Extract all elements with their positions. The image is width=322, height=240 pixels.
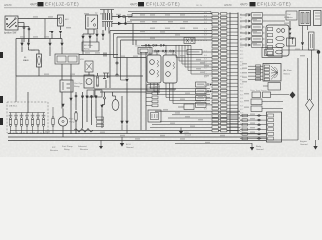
svg-text:EFI(1JZ-GTE): EFI(1JZ-GTE): [45, 2, 79, 7]
wire coil drop 2: [108, 27, 110, 34]
relay coil windings: [102, 13, 113, 27]
svg-text:E15: E15: [240, 65, 243, 67]
wire FL down: [38, 67, 40, 76]
wire x105 low: [101, 108, 103, 128]
svg-text:Fuel: Fuel: [69, 119, 74, 121]
connector diamond wts: [290, 92, 296, 99]
bus wire row2: [16, 38, 62, 40]
wire fuse jog: [49, 31, 52, 33]
svg-text:EFI(1JZ-GTE): EFI(1JZ-GTE): [257, 2, 291, 7]
svg-text:E8: E8: [240, 40, 242, 42]
connector arrow B4: [101, 34, 104, 38]
wire long mid row 121: [160, 121, 240, 123]
wire x122 tail: [121, 124, 123, 130]
wire JB feed top: [15, 76, 17, 102]
connector pair below fuse: [51, 31, 63, 34]
wire bus row 40: [121, 39, 213, 41]
fuse F-pump outside: [52, 107, 54, 134]
wire relay bus: [83, 33, 94, 35]
wire cap feed: [79, 54, 118, 56]
injector connector pairs: [240, 14, 251, 47]
svg-text:E23: E23: [240, 94, 243, 96]
fuse JB2: [15, 113, 17, 134]
svg-text:Relay: Relay: [74, 86, 80, 88]
bottom label 2: [62, 146, 73, 151]
wire x76: [75, 92, 77, 110]
svg-text:Resistor: Resistor: [80, 148, 88, 151]
connector arrow x105: [100, 105, 103, 109]
connector pair ck3: [170, 50, 176, 52]
wire wts out: [271, 94, 290, 96]
svg-text:E13: E13: [240, 58, 243, 60]
header title block 3: [240, 2, 291, 7]
wire B4 stub: [102, 30, 104, 34]
knock sensor 2: [196, 89, 213, 94]
svg-text:E26: E26: [240, 105, 243, 107]
circuit opening relay label: [74, 82, 83, 88]
wire top right run: [282, 49, 319, 51]
svg-text:4A70: 4A70: [240, 3, 248, 7]
wire x71: [70, 90, 72, 134]
wire x122: [121, 96, 123, 121]
sensor box top right: [262, 48, 282, 58]
wire ecu low feeds: [240, 114, 267, 140]
wire x127b: [126, 82, 128, 96]
igniter sub box: [287, 38, 296, 46]
wire bottom bus 0: [10, 129, 240, 131]
svg-text:ND IN: ND IN: [196, 5, 202, 7]
fuse JB1: [9, 113, 11, 134]
svg-text:E7: E7: [240, 36, 242, 38]
wire to O2: [105, 80, 107, 88]
wire right vert 2: [307, 58, 309, 100]
wire ladder rows upper: [176, 58, 212, 75]
svg-text:F/P: F/P: [52, 147, 56, 149]
sensor box r2: [251, 99, 283, 105]
svg-text:4A70: 4A70: [130, 3, 138, 7]
connector arrow x127: [125, 121, 128, 125]
wire corner fan: [151, 83, 211, 104]
check connector X box: [184, 38, 195, 44]
svg-text:E11: E11: [240, 51, 243, 53]
svg-text:E12: E12: [240, 54, 243, 56]
ignition switch SW1: [5, 16, 18, 30]
wire right edge drop: [318, 50, 320, 140]
svg-text:EFI(1JZ-GTE): EFI(1JZ-GTE): [146, 2, 180, 7]
wire x120 low: [121, 79, 128, 81]
svg-text:ECU: ECU: [126, 144, 131, 146]
binder mark 2: [0, 96, 3, 103]
wire ecu bottom: [267, 139, 299, 141]
wire color smudges: [20, 13, 305, 143]
big connector diamond right: [306, 99, 314, 140]
ECU pin labels: [240, 14, 243, 133]
wire bottom bus 4: [175, 143, 252, 145]
svg-text:Ground: Ground: [185, 135, 192, 137]
wire sens drop2: [86, 99, 88, 122]
svg-text:Ign: Ign: [95, 13, 98, 15]
diode D1: [118, 15, 122, 19]
svg-text:JZA70: JZA70: [4, 3, 12, 7]
node x105: [104, 97, 106, 99]
diode D2: [118, 22, 122, 26]
wire sens drops: [86, 95, 88, 97]
diode D1 circle: [123, 15, 126, 18]
connector pair m2: [153, 44, 159, 46]
connector arrow x122: [120, 121, 123, 125]
fusible link FL1: [37, 54, 42, 67]
svg-text:Fuel Pump: Fuel Pump: [62, 146, 73, 148]
svg-text:E4: E4: [240, 25, 242, 27]
ground G4 engine: [300, 140, 318, 150]
wire left drop: [15, 39, 17, 57]
mini stack boxes: [97, 117, 104, 127]
fuse JB5 label: [31, 115, 35, 117]
svg-text:E2: E2: [240, 18, 242, 20]
fuel pump FP: [58, 117, 67, 126]
svg-text:Ground: Ground: [126, 146, 134, 149]
check connector box: [138, 48, 152, 55]
wire fuse htr stub: [97, 73, 99, 76]
wire corner drop x110: [109, 31, 111, 55]
wire x-box dashes: [195, 40, 207, 42]
wire JB feed: [27, 92, 29, 113]
wire coil drop 1: [105, 27, 107, 31]
wire fuse down: [60, 26, 62, 30]
wire AM1 drop: [44, 19, 46, 39]
junction box 2 connectors: [55, 54, 79, 64]
header rule: [4, 7, 322, 9]
wire diode row2: [112, 23, 132, 25]
wire AM2: [18, 22, 24, 24]
svg-text:Ignition SW: Ignition SW: [4, 32, 17, 35]
svg-text:E3: E3: [240, 21, 242, 23]
fuse JB7 label: [42, 115, 46, 117]
wire bottom bus 3: [8, 140, 266, 142]
wire corner drops right: [176, 45, 191, 74]
wire corner drop x120: [120, 40, 122, 80]
wire row 20: [130, 19, 212, 21]
wire diode row1: [112, 16, 132, 18]
connector arrow FP: [61, 104, 64, 108]
wire relay pins: [87, 29, 89, 34]
ECU lower connector block: [267, 112, 282, 142]
check connector 2 box: [147, 85, 159, 92]
svg-text:E5: E5: [240, 29, 242, 31]
EFI main relay coil: [86, 15, 98, 29]
wire relay drop: [61, 92, 63, 109]
fuse EFI 15A: [58, 15, 64, 26]
fuse JB2 label: [14, 115, 18, 117]
wire pump drop: [62, 126, 64, 137]
fuel pump label: [69, 119, 75, 124]
wire B3 stub: [96, 30, 98, 34]
air flow meter label: [283, 69, 292, 76]
connector pair m3: [160, 44, 166, 46]
connector arrow B3: [95, 34, 98, 38]
fuse JB7: [42, 113, 44, 134]
ECU pin ladder left column: [212, 13, 218, 132]
svg-text:Solenoid: Solenoid: [78, 146, 87, 148]
wire O2 feeds: [112, 92, 114, 96]
wire right vert 1: [297, 58, 299, 140]
ECU pin ladder links: [218, 14, 230, 131]
wire x127: [126, 58, 128, 79]
capacitor C2 and grounds: [103, 73, 110, 79]
wire long mid row 124: [152, 124, 240, 126]
wire corner drop x117: [116, 37, 118, 75]
igniter box right: [314, 11, 322, 26]
wire long mid row 111: [155, 110, 240, 112]
svg-text:Ground: Ground: [256, 148, 264, 151]
svg-text:Ground: Ground: [300, 143, 308, 146]
water temp sensor boxes: [250, 89, 271, 97]
wire center vertical 1: [140, 52, 142, 130]
wire x127 low: [126, 96, 128, 121]
fuse JB6: [37, 113, 39, 134]
svg-text:Relay: Relay: [84, 49, 90, 51]
ground G2 with label: [120, 137, 134, 149]
svg-text:Coil: Coil: [287, 14, 291, 16]
connector circle node1: [116, 62, 118, 64]
header title block 2: [130, 2, 180, 7]
wire row 17: [125, 17, 127, 24]
ECU connector strip: [230, 13, 238, 134]
wire cap drop: [109, 55, 111, 89]
coil igniter label box: [286, 11, 297, 20]
wire mid bus 45: [141, 44, 191, 46]
pump motor M1: [84, 75, 94, 88]
binder mark 1: [0, 52, 3, 58]
svg-text:Relay: Relay: [64, 149, 70, 151]
AFM wire stubs: [248, 66, 263, 79]
svg-text:(Air Flow: (Air Flow: [283, 69, 292, 72]
svg-text:E27: E27: [240, 109, 243, 111]
svg-text:E25: E25: [240, 102, 243, 104]
wire battery bus: [15, 56, 17, 76]
wire top rail: [128, 11, 211, 13]
svg-text:4A70: 4A70: [30, 3, 38, 7]
wire bus row 37: [117, 36, 212, 38]
diag connector box: [148, 110, 161, 122]
wire A4 stub: [61, 39, 63, 43]
wire x76 low: [75, 122, 77, 134]
connector arrow C1: [125, 79, 128, 83]
wire row1 to ladder: [131, 14, 133, 17]
svg-text:EFI: EFI: [65, 19, 69, 21]
fuse JB3: [20, 113, 22, 134]
svg-text:JZA70: JZA70: [224, 3, 232, 7]
wire color labels: [204, 12, 208, 111]
bottom label 1: [50, 147, 58, 152]
wire pump top: [62, 109, 64, 117]
resistor cord: [309, 32, 315, 50]
wire A2 stub: [28, 39, 30, 43]
connector diamond R1: [289, 28, 292, 35]
wire fuse drop: [51, 34, 53, 39]
connector arrow x71: [69, 98, 72, 102]
connector circle node2: [116, 74, 118, 76]
connector arrow S3: [94, 96, 97, 100]
oxygen sensor O2: [112, 96, 119, 110]
junction block bus: [9, 112, 45, 114]
connector arrow A1: [20, 43, 23, 47]
wire bottom bus 1: [8, 133, 266, 135]
svg-text:Engine: Engine: [300, 141, 308, 143]
connector arrow S2: [90, 96, 93, 100]
node x76: [75, 95, 77, 97]
wire coil top feeds: [100, 9, 114, 11]
wire A3 stub: [49, 39, 51, 43]
shield label 2: [164, 52, 177, 54]
wire junction x71 upper: [70, 64, 72, 90]
wire long mid row 115: [172, 114, 240, 116]
wire coil drops: [302, 26, 304, 43]
fuse JB4 label: [25, 115, 29, 117]
ecu low pin boxes: [242, 114, 248, 140]
fuse x76: [75, 111, 77, 113]
binder mark 3: [0, 118, 3, 125]
knock sensor 1: [196, 82, 213, 87]
wire mid link: [114, 57, 147, 59]
sensor box 4: [196, 102, 213, 107]
svg-text:E20: E20: [240, 83, 243, 85]
throttle adjuster VR1: [85, 61, 93, 72]
capacitor C1: [103, 53, 105, 57]
node IG2 connector: [28, 28, 30, 30]
wire bend to FL: [29, 49, 40, 51]
wire B2 stub: [89, 34, 91, 36]
ground G3: [250, 143, 264, 151]
wire bottom bus 2: [8, 136, 266, 138]
wire x127 tail: [126, 124, 128, 133]
connector pair ck1: [155, 50, 161, 52]
connector arrow A3: [48, 43, 51, 47]
wire igniter drop: [289, 21, 291, 28]
svg-text:E10: E10: [240, 47, 243, 49]
svg-text:J/B No.1: J/B No.1: [9, 106, 18, 108]
wire IG2 down: [28, 27, 30, 43]
air flow meter box: [263, 64, 281, 82]
node AM2 connector: [23, 27, 25, 29]
wire row2 to ladder: [132, 23, 212, 25]
wire dist right: [289, 38, 292, 40]
relay box pair: [87, 90, 102, 97]
connector pair m1: [145, 44, 151, 46]
node top right: [317, 50, 320, 53]
sensor small box low: [178, 104, 194, 110]
sub ladder boxes: [152, 92, 158, 107]
ignition coil box: [299, 11, 311, 26]
svg-text:Pump: Pump: [69, 122, 75, 124]
connector arrow RC: [301, 42, 304, 46]
svg-text:EFI Main: EFI Main: [84, 45, 94, 47]
wire inj stubs: [263, 27, 265, 45]
sensor box 3: [196, 96, 213, 101]
wire pickup risers: [150, 45, 173, 55]
connector arrow S1: [85, 96, 88, 100]
shield label 1: [147, 52, 160, 54]
bottom label 3: [78, 146, 88, 151]
wire bus to center: [39, 75, 143, 77]
circuit opening relay: [60, 80, 73, 92]
wire center vertical 2: [145, 52, 147, 130]
connector arrow B1: [81, 36, 84, 40]
ground G1: [99, 140, 103, 149]
connector diamond dist out: [291, 37, 294, 40]
wire drop check: [132, 24, 134, 46]
connector arrow A4: [60, 43, 63, 47]
svg-text:E24: E24: [240, 98, 243, 100]
svg-text:Meter): Meter): [284, 73, 291, 76]
wire top rail hook: [210, 12, 212, 14]
sensor box r3: [251, 106, 283, 112]
wire bus row 30: [110, 30, 212, 32]
svg-text:E16: E16: [240, 69, 243, 71]
wire IG2: [18, 26, 29, 28]
wire check out: [152, 50, 187, 52]
sub ladder wires: [146, 93, 152, 105]
svg-text:E21: E21: [240, 87, 243, 89]
wire S0: [82, 92, 84, 96]
wire IGN to fuse bus: [18, 18, 60, 20]
wire right vert 3: [311, 58, 313, 100]
wire long row 92: [100, 91, 160, 93]
injector label boxes: [252, 13, 263, 48]
svg-text:Circ Opn: Circ Opn: [74, 82, 83, 85]
solenoid resistor box: [187, 50, 212, 55]
wire AM2 down: [23, 23, 25, 43]
wire corner drop x113: [113, 34, 115, 58]
svg-text:E29: E29: [240, 116, 243, 118]
connector arrow B2: [88, 36, 91, 40]
wire bottom bus -1: [150, 127, 240, 129]
wire bus row 33: [114, 33, 213, 35]
junction block J/B dashed box: [7, 102, 48, 133]
AFM sub box: [263, 83, 281, 91]
ECU pin ladder right column: [221, 13, 227, 132]
connector pair ck2: [162, 50, 168, 52]
pickup coil box Ne: [163, 55, 177, 83]
fuse JB3 label: [20, 115, 24, 117]
node junction dot: [124, 22, 126, 24]
wire rc down: [302, 46, 304, 50]
fuse JB1 label: [9, 115, 13, 117]
wire A1 stub: [21, 39, 23, 43]
header title block 1: [30, 2, 79, 7]
wire long row 89: [94, 88, 176, 90]
wire long mid row 118: [168, 117, 240, 119]
AFM pin boxes: [256, 65, 261, 81]
connector arrow S0: [81, 96, 84, 100]
wire coil risers: [103, 10, 105, 14]
connector arrow A2: [27, 43, 30, 47]
svg-text:Resistor: Resistor: [50, 149, 58, 152]
svg-text:E22: E22: [240, 91, 243, 93]
wire coil leads: [263, 14, 286, 16]
pickup coil box G: [147, 55, 161, 83]
fuse JB5: [31, 113, 33, 134]
wire junction to relay: [61, 64, 63, 80]
wire x105: [104, 92, 106, 97]
fuse JB4: [26, 113, 28, 134]
EFI main relay label box: [82, 42, 99, 51]
resistor R-FP zigzag: [74, 129, 93, 133]
fuse JB6 label: [36, 115, 40, 117]
fuse F-HTR: [97, 76, 99, 78]
svg-text:MAIN: MAIN: [23, 59, 29, 62]
ground G5 mid: [179, 128, 191, 137]
